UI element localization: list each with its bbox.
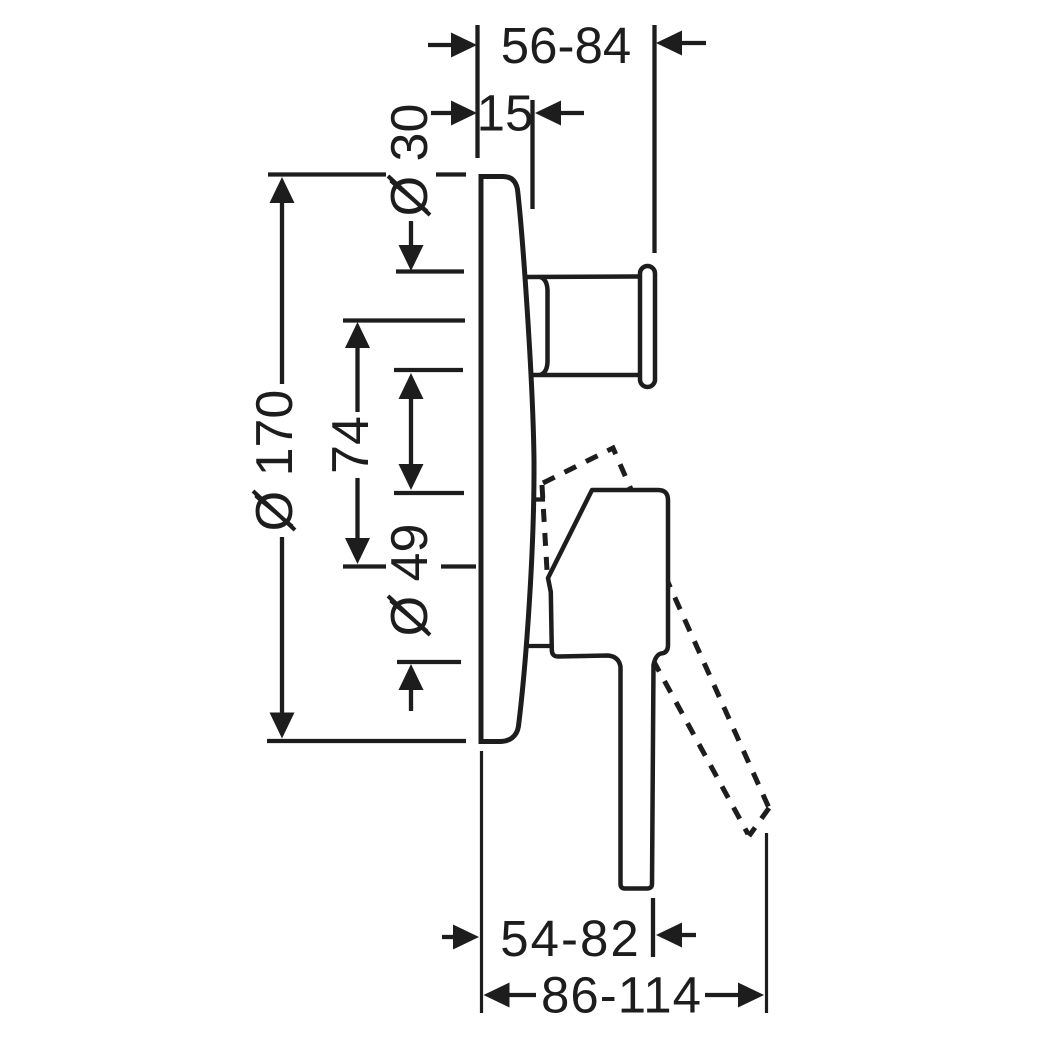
svg-text:Ø 30: Ø 30 bbox=[381, 104, 439, 217]
svg-text:54-82: 54-82 bbox=[500, 910, 640, 967]
svg-text:Ø 49: Ø 49 bbox=[381, 524, 439, 637]
svg-text:86-114: 86-114 bbox=[541, 967, 702, 1024]
svg-text:74: 74 bbox=[322, 416, 380, 474]
svg-text:15: 15 bbox=[477, 85, 534, 142]
svg-text:56-84: 56-84 bbox=[501, 17, 631, 74]
svg-text:Ø 170: Ø 170 bbox=[246, 390, 304, 532]
